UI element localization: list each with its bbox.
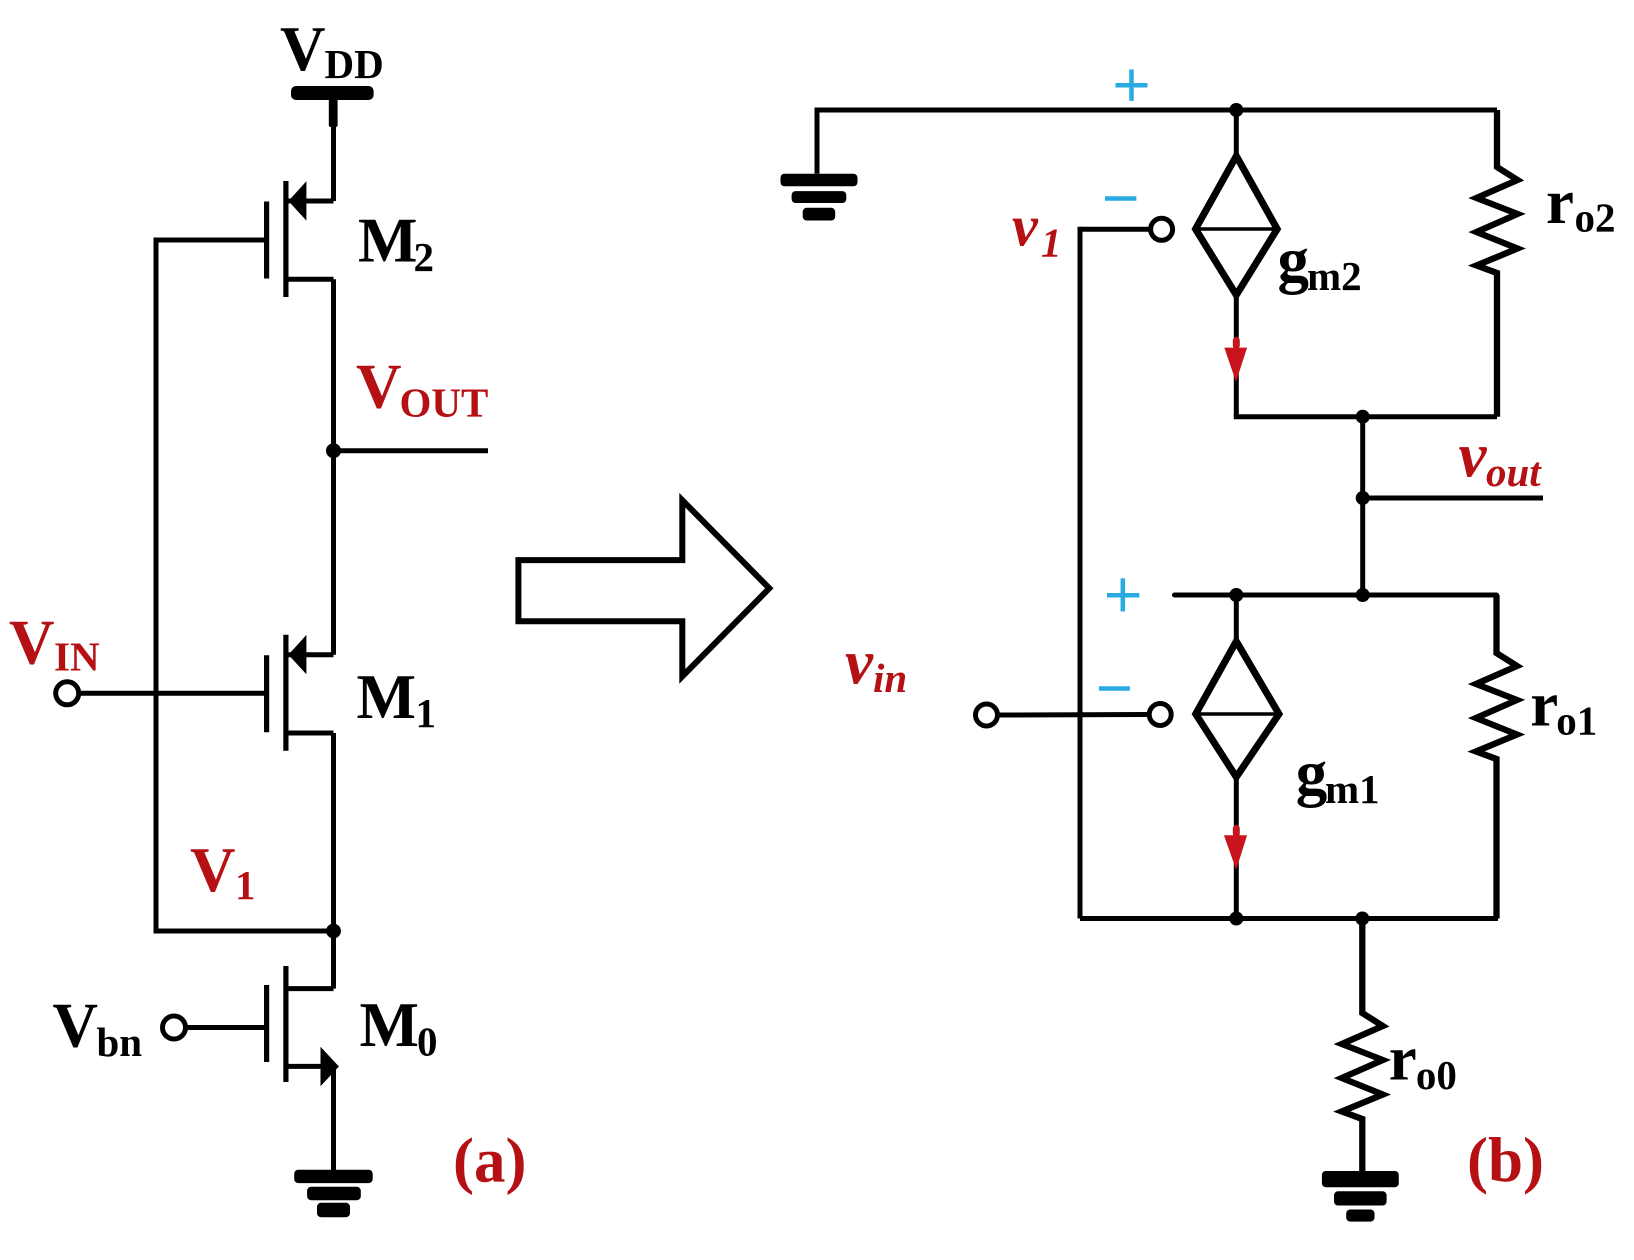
svg-text:1: 1: [1041, 220, 1062, 266]
svg-text:v: v: [845, 627, 874, 697]
svg-text:r: r: [1546, 167, 1574, 237]
label v1: [1012, 193, 1062, 265]
port Vbn terminal circle: [163, 1016, 186, 1039]
svg-text:V: V: [280, 14, 326, 84]
power rail VDD label: [280, 14, 384, 87]
wire vin between circles: [999, 712, 1149, 718]
wire vout: [1363, 496, 1543, 501]
current arrow gm1 (red): [1224, 825, 1247, 870]
port VIN label: [9, 607, 100, 679]
wire M2 gate feedback horizontal: [156, 238, 264, 243]
svg-text:V: V: [190, 835, 236, 905]
wire rail to ground: [815, 108, 820, 174]
controlled source gm2 label: [1278, 225, 1362, 299]
wire Vbn to M0 gate: [186, 1025, 264, 1030]
node dot top: [1229, 103, 1243, 117]
wire feedback vertical: [154, 238, 159, 932]
transistor M2 label: [358, 206, 434, 280]
svg-text:0: 0: [417, 1019, 438, 1065]
controlled source gm1 diamond: [1196, 641, 1279, 777]
svg-text:2: 2: [414, 234, 435, 280]
wire VOUT: [334, 448, 489, 453]
svg-text:V: V: [9, 607, 55, 677]
svg-text:OUT: OUT: [400, 380, 489, 426]
controlled source gm2 diamond: [1196, 156, 1278, 295]
wire gm1 bottom: [1234, 772, 1239, 919]
port vin terminal circle right: [1149, 704, 1171, 726]
wire gm1 top stub: [1234, 595, 1239, 647]
svg-text:g: g: [1296, 738, 1328, 808]
node dot ro0-top: [1355, 912, 1369, 926]
controlled source gm1 label: [1296, 738, 1380, 812]
svg-text:m1: m1: [1325, 766, 1380, 812]
ground (a): [294, 1170, 373, 1218]
minus sign mid (cyan): [1099, 686, 1130, 691]
svg-text:in: in: [873, 655, 907, 701]
node dot gm1-top: [1229, 588, 1243, 602]
wire VIN to M1 gate: [79, 691, 264, 696]
wire to vout node: [1360, 417, 1365, 595]
svg-text:r: r: [1389, 1024, 1417, 1094]
transistor M2: [267, 181, 334, 297]
label VOUT: [356, 351, 488, 425]
svg-text:M: M: [360, 990, 419, 1060]
svg-text:1: 1: [416, 690, 437, 736]
node dot gm2-bottom: [1356, 410, 1370, 424]
controlled source gm2 midline: [1196, 227, 1278, 231]
current arrow gm2 (red): [1224, 337, 1247, 382]
svg-text:M: M: [358, 206, 417, 276]
wire gm2 bottom: [1234, 290, 1239, 417]
svg-text:o2: o2: [1575, 194, 1616, 240]
wire to gm2 top: [1234, 110, 1239, 162]
transistor M0 arrow: [321, 1047, 339, 1087]
wire plus rail of gm1 cell: [1175, 593, 1497, 598]
controlled source gm1 midline: [1196, 712, 1279, 716]
wire V1 horizontal: [154, 929, 334, 934]
wire v1 circle to corner: [1080, 227, 1149, 232]
svg-text:g: g: [1278, 225, 1310, 295]
transistor M0 label: [360, 990, 438, 1065]
resistor ro2 label: [1546, 167, 1616, 240]
svg-text:v: v: [1459, 421, 1488, 491]
power rail VDD stub: [329, 99, 338, 127]
port v1 terminal circle: [1151, 218, 1173, 240]
svg-text:IN: IN: [54, 634, 100, 680]
transistor M1 arrow: [288, 635, 306, 674]
ground bottom-right: [1322, 1171, 1399, 1222]
svg-text:v: v: [1012, 193, 1039, 258]
svg-text:r: r: [1530, 669, 1558, 739]
svg-text:V: V: [356, 351, 402, 421]
wire bottom rail of gm1 cell: [1080, 916, 1498, 921]
wire VDD to M2 source: [331, 100, 336, 201]
svg-text:bn: bn: [97, 1019, 143, 1065]
transistor M1 label: [357, 662, 437, 736]
svg-text:o1: o1: [1556, 697, 1597, 743]
node dot vout-column: [1356, 588, 1370, 602]
node VOUT dot: [326, 443, 341, 458]
block arrow: [518, 500, 769, 676]
wire M1 drain to node V1: [331, 733, 336, 989]
svg-text:out: out: [1486, 449, 1542, 495]
resistor ro2: [1477, 110, 1518, 417]
svg-text:M: M: [357, 662, 416, 732]
label vout: [1459, 421, 1543, 495]
resistor ro1: [1476, 595, 1517, 919]
plus sign top (cyan): [1116, 70, 1148, 101]
transistor M0: [267, 966, 334, 1082]
svg-text:(b): (b): [1467, 1125, 1544, 1195]
svg-text:V: V: [53, 991, 99, 1061]
wire top-cell bottom: [1234, 414, 1497, 419]
wire M2 drain to M1 source: [331, 279, 336, 654]
node dot gm1-bottom: [1229, 912, 1243, 926]
ground top-left: [781, 174, 858, 221]
power rail VDD bar: [291, 86, 374, 100]
wire top rail: [817, 108, 1497, 113]
svg-text:(a): (a): [453, 1125, 526, 1195]
port vin terminal circle left: [976, 704, 998, 726]
minus sign top (cyan): [1105, 196, 1136, 201]
svg-text:m2: m2: [1307, 253, 1362, 299]
label vin: [845, 627, 907, 701]
wire v1 vertical: [1078, 227, 1083, 919]
svg-text:DD: DD: [325, 41, 384, 87]
transistor M2 arrow: [288, 181, 306, 220]
transistor M1: [267, 635, 334, 751]
svg-text:o0: o0: [1416, 1052, 1457, 1098]
resistor ro0 label: [1389, 1024, 1457, 1098]
resistor ro1 label: [1530, 669, 1597, 743]
wire M0 source to ground: [331, 1066, 336, 1171]
plus sign mid (cyan): [1107, 578, 1139, 611]
label V1: [190, 835, 256, 908]
node V1 dot: [326, 924, 341, 939]
port Vbn label: [53, 991, 143, 1066]
resistor ro0: [1342, 919, 1383, 1172]
port VIN terminal circle: [56, 682, 79, 705]
node vout dot: [1356, 491, 1370, 505]
svg-text:1: 1: [235, 862, 256, 908]
